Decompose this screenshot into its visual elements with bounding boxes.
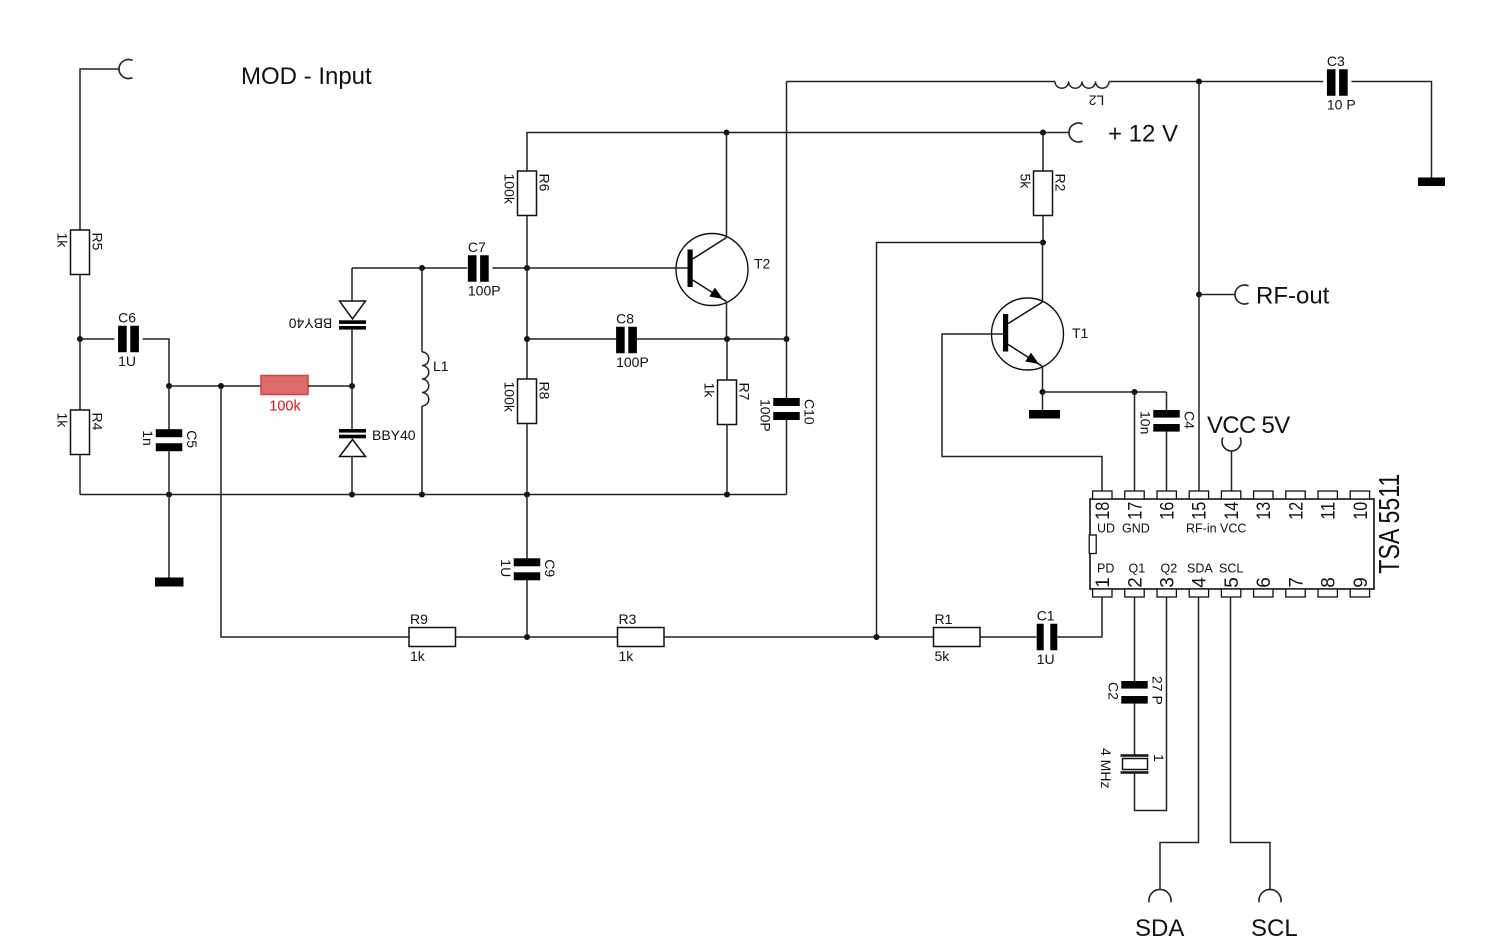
node RF rail bbox=[1196, 79, 1202, 85]
svg-text:MOD - Input: MOD - Input bbox=[241, 63, 372, 90]
svg-text:14: 14 bbox=[1222, 501, 1243, 519]
node C9 bottom bbox=[524, 634, 530, 640]
capacitor C1 bbox=[1037, 607, 1058, 667]
wire T2 base bbox=[527, 267, 688, 269]
node rail-L1 bbox=[419, 492, 425, 498]
svg-text:R2: R2 bbox=[1053, 174, 1069, 192]
wire bbox=[168, 451, 170, 494]
svg-text:17: 17 bbox=[1125, 502, 1146, 520]
svg-text:100P: 100P bbox=[757, 399, 773, 432]
wire +12V rail bbox=[527, 133, 1069, 172]
node C5 top bbox=[166, 383, 172, 389]
resistor R3 bbox=[618, 611, 665, 664]
label +12V bbox=[1108, 121, 1178, 148]
svg-text:2: 2 bbox=[1125, 577, 1146, 588]
capacitor C9 bbox=[498, 558, 558, 580]
wire bbox=[786, 339, 788, 399]
resistor R4 bbox=[55, 410, 106, 455]
connector VCC bbox=[1222, 437, 1241, 451]
wire bbox=[1134, 704, 1136, 756]
wire T2 collector bbox=[726, 133, 728, 238]
wire bbox=[637, 338, 787, 340]
svg-text:1k: 1k bbox=[55, 413, 71, 429]
svg-text:10n: 10n bbox=[1137, 411, 1153, 434]
node L1 top bbox=[419, 265, 425, 271]
svg-text:TSA 5511: TSA 5511 bbox=[1374, 474, 1406, 574]
svg-text:RF-in: RF-in bbox=[1186, 522, 1217, 536]
svg-text:11: 11 bbox=[1319, 502, 1340, 520]
svg-text:15: 15 bbox=[1190, 502, 1211, 520]
wire GND pin17 bbox=[1134, 392, 1136, 491]
wire bbox=[351, 457, 353, 495]
svg-text:GND: GND bbox=[1122, 522, 1150, 536]
svg-text:R7: R7 bbox=[737, 383, 753, 401]
svg-text:C6: C6 bbox=[118, 309, 136, 325]
resistor R8 bbox=[502, 379, 553, 424]
node T1 emitter bbox=[1040, 389, 1046, 395]
svg-text:1k: 1k bbox=[410, 648, 426, 664]
wire pin1 bbox=[1057, 597, 1102, 637]
connector SDA bbox=[1149, 889, 1171, 902]
svg-text:SCL: SCL bbox=[1219, 562, 1243, 576]
svg-text:C9: C9 bbox=[542, 559, 558, 577]
capacitor C7 bbox=[468, 239, 501, 299]
label RF-out bbox=[1256, 283, 1330, 310]
wire bbox=[221, 386, 409, 637]
svg-text:BBY40: BBY40 bbox=[288, 316, 332, 332]
capacitor C3 bbox=[1327, 53, 1356, 113]
wire bbox=[1042, 133, 1044, 172]
wire bbox=[726, 339, 728, 380]
wire bbox=[79, 455, 81, 495]
wire RF line bbox=[1198, 82, 1200, 492]
node C10 top bbox=[784, 336, 790, 342]
svg-text:C2: C2 bbox=[1105, 682, 1121, 700]
svg-text:100k: 100k bbox=[502, 382, 518, 413]
wire bbox=[1199, 294, 1235, 296]
wire bbox=[308, 385, 352, 387]
wire T1 emitter bbox=[1042, 367, 1044, 393]
capacitor C2 bbox=[1105, 676, 1165, 705]
svg-text:1U: 1U bbox=[1037, 651, 1055, 667]
svg-text:1k: 1k bbox=[619, 648, 635, 664]
node R2 bottom bbox=[1040, 240, 1046, 246]
wire bbox=[526, 268, 528, 379]
connector MOD input bbox=[119, 59, 133, 78]
svg-text:6: 6 bbox=[1254, 577, 1275, 588]
node varicap mid bbox=[349, 383, 355, 389]
svg-text:R5: R5 bbox=[90, 233, 106, 251]
label SCL bbox=[1251, 915, 1298, 942]
svg-text:PD: PD bbox=[1097, 562, 1114, 576]
svg-text:1k: 1k bbox=[702, 383, 718, 399]
svg-text:C8: C8 bbox=[616, 310, 634, 326]
wire bbox=[352, 267, 467, 269]
wire bbox=[456, 636, 618, 638]
resistor R1 bbox=[934, 611, 981, 664]
node rail-D2 bbox=[349, 492, 355, 498]
wire bbox=[786, 420, 788, 495]
svg-text:16: 16 bbox=[1158, 502, 1179, 520]
wire bbox=[1231, 451, 1233, 491]
svg-text:L1: L1 bbox=[433, 358, 449, 374]
svg-text:4 MHz: 4 MHz bbox=[1098, 748, 1114, 788]
connector RF-out bbox=[1235, 285, 1249, 304]
svg-text:100P: 100P bbox=[616, 354, 649, 370]
svg-text:C4: C4 bbox=[1181, 411, 1197, 429]
wire top rail bbox=[787, 81, 1056, 83]
svg-text:27 P: 27 P bbox=[1149, 676, 1165, 705]
capacitor C4 bbox=[1137, 410, 1197, 434]
svg-text:Q1: Q1 bbox=[1129, 562, 1146, 576]
wire bbox=[143, 339, 169, 386]
wire bbox=[1109, 81, 1323, 83]
connector +12V bbox=[1069, 123, 1083, 142]
svg-text:VCC: VCC bbox=[1220, 522, 1246, 536]
svg-text:R4: R4 bbox=[90, 413, 106, 431]
wire bottom rail bbox=[80, 494, 787, 496]
wire bbox=[526, 495, 528, 560]
svg-text:R8: R8 bbox=[537, 382, 553, 400]
svg-text:BBY40: BBY40 bbox=[372, 427, 416, 443]
node RF out bbox=[1196, 292, 1202, 298]
capacitor C10 bbox=[757, 398, 817, 432]
svg-text:10: 10 bbox=[1351, 502, 1372, 520]
wire bbox=[168, 495, 170, 578]
crystal Q 4MHz bbox=[1098, 748, 1167, 788]
svg-text:C5: C5 bbox=[184, 430, 200, 448]
varicap D1 BBY40 bbox=[288, 301, 366, 332]
wire pin3 bbox=[1135, 597, 1167, 811]
node rail-R8-C9 bbox=[524, 492, 530, 498]
inductor L2 bbox=[1055, 82, 1109, 109]
wire bbox=[877, 243, 1044, 638]
svg-text:18: 18 bbox=[1093, 502, 1114, 520]
svg-text:4: 4 bbox=[1190, 577, 1211, 588]
node T2 collector top bbox=[724, 130, 730, 136]
node rail-C5 bbox=[166, 492, 172, 498]
label VCC 5V bbox=[1207, 412, 1290, 439]
ground T1 bbox=[1029, 410, 1060, 419]
svg-text:C7: C7 bbox=[468, 239, 486, 255]
wire bbox=[80, 69, 119, 230]
wire bbox=[1351, 82, 1431, 178]
svg-text:100P: 100P bbox=[468, 282, 501, 298]
svg-text:C10: C10 bbox=[801, 399, 817, 425]
svg-text:10 P: 10 P bbox=[1327, 96, 1356, 112]
svg-text:1k: 1k bbox=[55, 233, 71, 249]
svg-text:L2: L2 bbox=[1089, 93, 1105, 109]
wire bbox=[980, 636, 1036, 638]
wire pin2 bbox=[1134, 597, 1136, 681]
svg-text:T2: T2 bbox=[754, 256, 771, 272]
svg-text:SDA: SDA bbox=[1135, 915, 1184, 942]
svg-text:R3: R3 bbox=[619, 611, 637, 627]
wire bbox=[1166, 392, 1168, 411]
svg-text:100k: 100k bbox=[269, 399, 301, 415]
resistor R6 bbox=[502, 171, 553, 216]
node R2 top bbox=[1040, 130, 1046, 136]
varicap D2 BBY40 bbox=[339, 427, 416, 457]
svg-text:T1: T1 bbox=[1072, 325, 1089, 341]
svg-text:1: 1 bbox=[1093, 577, 1114, 588]
label SDA bbox=[1135, 915, 1184, 942]
svg-text:5k: 5k bbox=[935, 648, 951, 664]
ground bbox=[155, 578, 184, 587]
wire bbox=[664, 636, 934, 638]
wire bbox=[168, 386, 170, 429]
wire bbox=[527, 338, 616, 340]
svg-text:R9: R9 bbox=[410, 611, 428, 627]
wire bbox=[526, 424, 528, 495]
svg-text:C3: C3 bbox=[1327, 53, 1345, 69]
node T2 emitter-R7 bbox=[724, 336, 730, 342]
wire bbox=[1042, 216, 1044, 243]
svg-text:SCL: SCL bbox=[1251, 915, 1298, 942]
resistor R7 bbox=[702, 380, 753, 425]
ground top right bbox=[1418, 178, 1445, 187]
connector SCL bbox=[1259, 889, 1281, 902]
svg-text:8: 8 bbox=[1319, 577, 1340, 588]
wire bbox=[492, 267, 527, 269]
node C7-R6-R8 bbox=[524, 265, 530, 271]
wire bbox=[169, 385, 261, 387]
svg-text:R6: R6 bbox=[537, 174, 553, 192]
svg-text:3: 3 bbox=[1158, 577, 1179, 588]
capacitor C8 bbox=[616, 310, 649, 370]
node rail-R7 bbox=[724, 492, 730, 498]
svg-text:1: 1 bbox=[1151, 754, 1167, 762]
wire bbox=[1166, 432, 1168, 492]
svg-text:Q2: Q2 bbox=[1161, 562, 1178, 576]
wire bbox=[79, 339, 81, 410]
wire bbox=[1042, 392, 1044, 410]
svg-text:5: 5 bbox=[1222, 577, 1243, 588]
svg-text:1n: 1n bbox=[140, 430, 156, 446]
IC U1 TSA 5511 bbox=[1089, 474, 1406, 597]
wire T1 collector bbox=[1042, 243, 1044, 303]
capacitor C6 bbox=[118, 309, 139, 369]
resistor R5 bbox=[55, 230, 106, 275]
svg-text:UD: UD bbox=[1097, 522, 1115, 536]
inductor L1 bbox=[422, 268, 449, 495]
wire bbox=[526, 580, 528, 638]
svg-text:1U: 1U bbox=[498, 559, 514, 577]
svg-text:RF-out: RF-out bbox=[1256, 283, 1330, 310]
wire bbox=[786, 82, 788, 340]
svg-text:13: 13 bbox=[1254, 502, 1275, 520]
wire T2 emitter bbox=[726, 302, 728, 340]
svg-text:1U: 1U bbox=[118, 353, 136, 369]
node C8 left bbox=[524, 336, 530, 342]
svg-text:R1: R1 bbox=[935, 611, 953, 627]
svg-text:9: 9 bbox=[1351, 577, 1372, 588]
transistor T2 bbox=[676, 234, 771, 306]
wire bbox=[351, 330, 353, 429]
resistor R9 bbox=[409, 611, 456, 664]
svg-text:VCC 5V: VCC 5V bbox=[1207, 412, 1290, 439]
node 100k left bbox=[218, 383, 224, 389]
wire SDA bbox=[1160, 597, 1199, 890]
transistor T1 bbox=[992, 298, 1089, 370]
wire bbox=[1043, 391, 1167, 393]
node R1 left bbox=[874, 634, 880, 640]
resistor 100k red bbox=[261, 376, 308, 415]
label MOD - Input bbox=[241, 63, 372, 90]
wire bbox=[79, 275, 81, 340]
wire bbox=[351, 268, 353, 301]
wire SCL bbox=[1231, 597, 1271, 890]
node R5-R4-C6 bbox=[77, 336, 83, 342]
svg-text:SDA: SDA bbox=[1187, 562, 1213, 576]
svg-text:C1: C1 bbox=[1037, 607, 1055, 623]
svg-text:7: 7 bbox=[1286, 577, 1307, 588]
resistor R2 bbox=[1018, 171, 1069, 216]
wire bbox=[80, 338, 114, 340]
capacitor C5 bbox=[140, 429, 200, 451]
svg-text:5k: 5k bbox=[1018, 174, 1034, 190]
wire T1 base bbox=[942, 334, 1102, 491]
wire bbox=[526, 216, 528, 269]
node C4 top bbox=[1132, 389, 1138, 395]
wire bbox=[726, 425, 728, 495]
svg-text:+ 12 V: + 12 V bbox=[1108, 121, 1178, 148]
svg-text:100k: 100k bbox=[502, 174, 518, 205]
svg-text:12: 12 bbox=[1286, 502, 1307, 520]
